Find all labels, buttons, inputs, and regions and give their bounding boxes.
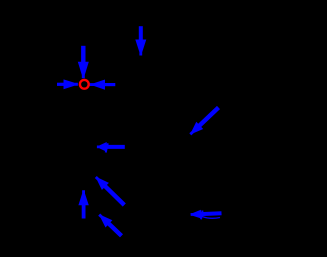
arrow A4 (pointing left at red circle) [90, 80, 116, 90]
open chevron mark behind arrow A7 head [106, 143, 108, 152]
arrow A11 (pointing left) [191, 210, 222, 219]
red circle marker (highlighted atom) [80, 80, 89, 89]
arrow A2 (pointing down at red circle) [78, 46, 89, 79]
arrow A1 (top, pointing down) [135, 26, 146, 55]
arrow A3 (pointing right at red circle) [57, 79, 78, 89]
arrow A8 (diagonal, pointing up-left) [95, 176, 125, 205]
arrow A6 (diagonal, pointing down-left) [189, 108, 218, 136]
arrow A7 (pointing left) [97, 142, 125, 152]
thin swoosh under arrow A11 shaft [202, 217, 220, 219]
open chevron mark behind arrow A11 head [201, 211, 203, 220]
arrow A9 (pointing up) [78, 190, 88, 218]
arrow A10 (diagonal, pointing up-left) [98, 214, 121, 236]
